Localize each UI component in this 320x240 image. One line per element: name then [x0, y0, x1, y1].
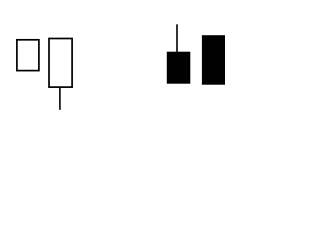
candlestick 1: small hollow (white) body, no shadows — [17, 40, 39, 71]
candlestick 3: small filled (black) body — [167, 52, 191, 84]
candlestick 3: upper shadow (wick) — [176, 24, 178, 52]
candlestick 2: tall hollow (white) body — [49, 39, 72, 88]
candlestick 2: lower shadow (wick) — [59, 87, 61, 110]
candlestick 4: tall filled (black) body, no shadows — [202, 35, 225, 84]
